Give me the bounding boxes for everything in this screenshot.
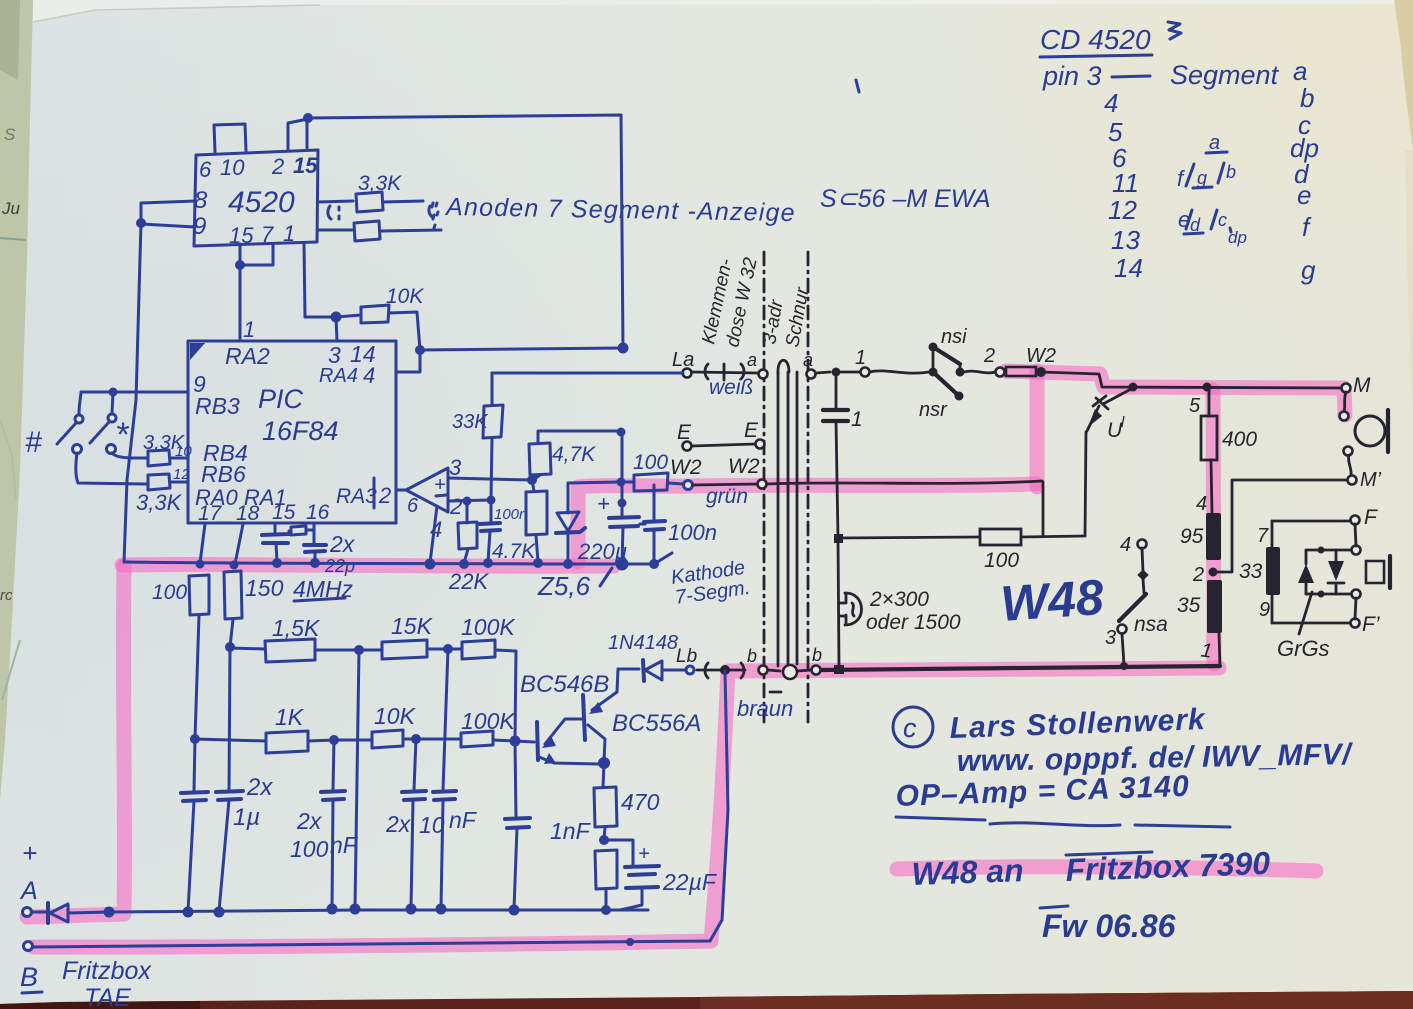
nsi nsr contact [932, 347, 935, 372]
svg-text:F’: F’ [1362, 613, 1380, 636]
svg-text:RA2: RA2 [225, 343, 270, 369]
rectifier bridge [1306, 549, 1336, 552]
svg-text:BC546B: BC546B [520, 671, 609, 698]
svg-text:6: 6 [199, 157, 212, 182]
svg-text:22p: 22p [324, 556, 355, 576]
svg-text:BC556A: BC556A [612, 710, 701, 737]
svg-text:1N4148: 1N4148 [608, 632, 678, 654]
Anoden annotation [429, 203, 438, 217]
electrolytic 220u [621, 432, 624, 516]
svg-text:W2: W2 [1026, 345, 1056, 367]
svg-text:e: e [1297, 180, 1311, 210]
svg-text:GrGs: GrGs [1277, 636, 1330, 661]
capacitor 1nF [515, 741, 516, 818]
svg-text:La: La [672, 349, 694, 371]
(already drawn to x=623; continue to La) [623, 372, 683, 375]
resistor lower anode feed [318, 229, 352, 232]
wire highlight: b row, down right side, B row [33, 668, 1219, 947]
svg-text:a: a [1293, 56, 1307, 86]
diode D1 1N4148 [618, 668, 639, 671]
caps 2x 10nF [414, 739, 416, 790]
resistor 100 (left column) [189, 575, 209, 615]
svg-text:100: 100 [633, 451, 668, 474]
svg-text:W2: W2 [670, 456, 702, 479]
vertical x446 down to cap [443, 649, 448, 790]
svg-text:c: c [903, 713, 917, 743]
wire to node 1 [841, 371, 860, 374]
svg-text:Ju: Ju [1, 199, 21, 218]
svg-text:100: 100 [152, 581, 187, 604]
GrGs rectifier box [1272, 520, 1350, 523]
svg-text:1: 1 [243, 317, 255, 342]
svg-text:3,3K: 3,3K [136, 490, 183, 515]
svg-text:d: d [1190, 215, 1201, 235]
svg-text:Fritzbox: Fritzbox [62, 957, 152, 985]
highlighter band: W48 an Fritzbox 7390 [897, 867, 1316, 871]
U' lead down and left to 100 row [1085, 432, 1086, 536]
svg-text:a: a [747, 350, 757, 370]
ground rail [124, 562, 654, 564]
svg-text:grün: grün [706, 485, 748, 508]
svg-text:6: 6 [407, 495, 419, 517]
pin 15 stub to top rail [306, 119, 309, 150]
svg-text:Fritzbox 7390: Fritzbox 7390 [1065, 845, 1271, 888]
svg-text:1,5K: 1,5K [272, 615, 321, 641]
horizontal 100 row [838, 537, 980, 538]
svg-text:100: 100 [984, 549, 1019, 572]
wire highlight: W2 vertical [1030, 371, 1045, 487]
svg-text:+: + [434, 474, 446, 496]
wire left bus down to pink corner [124, 223, 141, 562]
resistor below 470 [595, 850, 617, 889]
wire 33K top rail to bus [492, 372, 623, 375]
svg-text:pin 3: pin 3 [1042, 61, 1102, 91]
svg-text:+: + [597, 491, 610, 516]
svg-text:S: S [4, 125, 16, 144]
svg-text:CD 4520: CD 4520 [1040, 24, 1151, 55]
underlying green map paper, left edge [0, 0, 33, 800]
svg-text:1: 1 [283, 221, 295, 246]
svg-text:#: # [25, 426, 42, 459]
svg-text:4: 4 [1196, 493, 1207, 515]
thin wire node2 to M' [1218, 480, 1347, 572]
svg-text:150: 150 [245, 575, 284, 601]
IC U1 4520 box [194, 150, 318, 246]
jumper loop above pins 6-10 [214, 124, 246, 152]
svg-text:RA4: RA4 [319, 365, 358, 387]
vertical from row1 x360 to A row [355, 650, 359, 908]
svg-text:1: 1 [855, 347, 866, 369]
node La terminal circle [683, 369, 692, 378]
wire Lb down to B row [710, 671, 728, 941]
svg-text:nsa: nsa [1134, 613, 1168, 636]
svg-text:RA3: RA3 [336, 485, 377, 508]
capacitor 100n right [653, 485, 656, 520]
svg-text:B: B [20, 962, 38, 992]
svg-text:nsr: nsr [919, 399, 948, 421]
svg-text:3: 3 [1105, 627, 1116, 649]
svg-text:1µ: 1µ [233, 804, 260, 831]
svg-text:Fw 06.86: Fw 06.86 [1042, 908, 1176, 944]
svg-text:oder 1500: oder 1500 [866, 611, 961, 634]
jumper pins 15-7 below 4520 [240, 244, 273, 265]
svg-text:22µF: 22µF [662, 869, 718, 895]
svg-text:A: A [19, 877, 38, 905]
wire highlight: left vertical + A row [27, 566, 125, 917]
svg-text:15: 15 [272, 501, 296, 524]
wire 4520 pin1 down [304, 244, 333, 317]
copyright note [893, 707, 933, 747]
svg-text:2: 2 [378, 483, 391, 508]
wire highlight: right drop through coils [1213, 390, 1214, 664]
svg-text:100n: 100n [494, 506, 527, 523]
svg-text:M: M [1353, 374, 1371, 397]
svg-text:100n: 100n [668, 520, 717, 545]
crystal 4MHz with 2x22p [274, 524, 277, 533]
svg-text:4520: 4520 [228, 186, 295, 219]
svg-text:2x: 2x [329, 531, 356, 557]
svg-text:Z5,6: Z5,6 [537, 571, 591, 601]
svg-text:b: b [1300, 83, 1314, 113]
U' ringer branch [1103, 388, 1133, 404]
wire to PIC pin1/RA2 [239, 265, 242, 340]
svg-text:16F84: 16F84 [262, 416, 339, 446]
svg-text:weiß: weiß [709, 376, 753, 399]
svg-text:W2: W2 [728, 455, 760, 478]
caps 2x 1u [194, 739, 195, 791]
svg-text:100K: 100K [461, 708, 516, 734]
svg-text:+: + [638, 843, 650, 865]
wire highlight: zener branch up and gruen row [578, 484, 1036, 562]
svg-text:2x: 2x [246, 774, 273, 801]
wire op-amp pin4 down [430, 506, 437, 563]
svg-text:10K: 10K [374, 703, 417, 729]
svg-text:b: b [812, 645, 822, 665]
faint paper edge top-left [33, 0, 1413, 22]
svg-text:nF: nF [449, 807, 478, 833]
wire highlight: ground row [122, 564, 614, 566]
svg-text:2x: 2x [385, 811, 412, 837]
W2 connector bar [1006, 367, 1036, 376]
svg-text:33: 33 [1239, 560, 1263, 583]
row 1: 1,5K 15K 100K [230, 648, 265, 649]
wire op-amp pin2 row [448, 500, 491, 501]
resistor 150 [224, 571, 242, 619]
b-row printed marks [705, 663, 708, 678]
svg-text:33K: 33K [452, 411, 489, 433]
svg-text:E: E [744, 419, 759, 442]
resistor 10K [336, 315, 361, 317]
node W2 gruen terminal [684, 481, 693, 490]
svg-text:1nF: 1nF [550, 818, 592, 844]
wire op-amp pin3 [448, 478, 531, 480]
electrolytic 22uF [604, 840, 633, 864]
transistor Q1 BC546B [515, 741, 534, 742]
svg-text:12: 12 [173, 466, 190, 483]
svg-text:22K: 22K [448, 569, 489, 594]
svg-text:100: 100 [290, 836, 329, 862]
svg-text:10: 10 [419, 812, 445, 838]
svg-text:Lb: Lb [676, 646, 697, 667]
svg-text:2: 2 [449, 494, 462, 519]
svg-text:2×300: 2×300 [869, 588, 929, 611]
resistor 470 [603, 763, 604, 787]
wavy wire to node 2 [964, 371, 995, 373]
right tan paper edge [1394, 0, 1413, 150]
bell 2x300 oder 1500 [845, 593, 862, 625]
La row printed marks ( | ) [692, 372, 758, 373]
svg-text:2: 2 [1192, 564, 1204, 586]
svg-text:braun: braun [737, 696, 793, 721]
svg-text:35: 35 [1177, 594, 1201, 617]
svg-text:470: 470 [621, 789, 660, 815]
svg-text:a: a [1209, 132, 1220, 154]
row 2: 1K 10K 100K [195, 739, 266, 741]
svg-text:W48 an: W48 an [911, 852, 1024, 892]
svg-text:nF: nF [330, 832, 359, 858]
svg-text:16: 16 [306, 501, 330, 524]
B row [24, 942, 33, 951]
resistor 4,7K lower [532, 480, 534, 491]
svg-text:PIC: PIC [258, 384, 304, 414]
svg-text:400: 400 [1222, 428, 1257, 451]
resistor R 3,3K upper (anode feed) [318, 201, 353, 202]
svg-text:10: 10 [220, 155, 245, 180]
wire RB3 row to switches [81, 391, 188, 394]
gruen wire drop joins row [1042, 482, 1045, 536]
node a left [759, 370, 768, 379]
svg-text:3,3K: 3,3K [358, 172, 402, 195]
resistor 100 (W48) [980, 529, 1021, 545]
svg-text:1K: 1K [275, 704, 305, 730]
IC U2 PIC16F84 box [188, 341, 396, 523]
op-amp U3 CA3140 [396, 489, 406, 492]
svg-text:nsi: nsi [941, 326, 967, 348]
svg-text:W48: W48 [999, 569, 1106, 632]
svg-text:4: 4 [363, 363, 375, 388]
svg-text:4.7K: 4.7K [492, 540, 536, 563]
svg-text:rc: rc [0, 587, 13, 604]
svg-text:13: 13 [1111, 225, 1140, 255]
svg-text:14: 14 [1114, 253, 1143, 283]
wavy wire to nsi contact [870, 371, 929, 373]
svg-text:S⊂56 –M EWA: S⊂56 –M EWA [820, 185, 991, 213]
capacitor 1 plates [823, 408, 848, 412]
lower contacts [73, 445, 82, 454]
transistor Q2 BC556A [583, 695, 585, 740]
resistor 4,7K upper [538, 431, 621, 443]
svg-text:18: 18 [236, 502, 260, 525]
wire top rail to right and down (main vertical bus) [308, 115, 623, 348]
cord: three wires with top loop [778, 360, 789, 374]
svg-text:9: 9 [1259, 599, 1270, 621]
svg-text:RB3: RB3 [195, 393, 240, 419]
svg-text:10K: 10K [386, 285, 424, 308]
wire 4520 pin8 to left [141, 201, 196, 222]
svg-text:5: 5 [1189, 395, 1201, 417]
wire highlight: top black row to M [1006, 371, 1345, 415]
capacitor 100n [490, 500, 493, 522]
svg-text:RB6: RB6 [201, 461, 246, 487]
svg-text:Segment: Segment [1170, 60, 1280, 90]
svg-text:*: * [115, 416, 130, 454]
svg-text:4: 4 [1120, 534, 1131, 556]
Klemmendose dashed boundary lines [763, 252, 766, 722]
svg-text:2x: 2x [296, 808, 323, 834]
svg-text:2: 2 [271, 154, 284, 179]
junction cap node [832, 368, 841, 377]
top wire W2 to M [1041, 372, 1342, 388]
resistor 100 (gruen) [621, 481, 634, 484]
svg-text:17: 17 [198, 502, 223, 525]
kathode tick [654, 553, 672, 564]
svg-text:a: a [803, 350, 813, 370]
svg-text:2: 2 [983, 345, 995, 367]
b row bottom wire of W48 [820, 666, 1220, 670]
resistor 3,3K row12 [148, 474, 170, 490]
right column: coil 1/35/95, resistor 400 [1219, 634, 1220, 666]
svg-text:12: 12 [1108, 195, 1137, 225]
svg-text:1: 1 [851, 408, 863, 431]
svg-text:+: + [22, 838, 37, 868]
PIC pins 17,18 to ground rail [200, 524, 205, 563]
svg-text:E: E [677, 421, 692, 444]
resistor 22K [466, 501, 469, 523]
svg-text:10: 10 [175, 443, 192, 460]
svg-text:TAE: TAE [84, 984, 131, 1009]
svg-text:7: 7 [1257, 525, 1269, 547]
node a right [807, 370, 816, 379]
svg-text:3: 3 [449, 455, 462, 480]
node top rail junction [303, 113, 313, 123]
svg-text:b: b [747, 646, 757, 666]
caps 2x 100nF [333, 740, 334, 790]
svg-text:b: b [1226, 162, 1236, 182]
svg-text:15K: 15K [391, 613, 434, 639]
svg-text:15: 15 [293, 153, 318, 178]
earpiece capsule between M and M' [1344, 392, 1346, 411]
svg-text:M’: M’ [1360, 469, 1382, 491]
svg-text:4,7K: 4,7K [552, 443, 596, 466]
colon marks [432, 203, 435, 228]
capacitor 1 vertical lead [835, 376, 838, 409]
pin 2 stub [288, 120, 303, 150]
resistor 33K [491, 373, 494, 405]
wire node to PIC pin3 [336, 317, 337, 341]
wire node to main bus [420, 348, 623, 350]
svg-text:c: c [1218, 210, 1227, 230]
svg-text:g: g [1197, 168, 1207, 188]
pen mark [856, 80, 859, 92]
wire PIC pin4 jog up [397, 351, 420, 372]
wire 4520 pin9 to left [141, 224, 195, 227]
svg-text:4: 4 [1104, 88, 1118, 118]
svg-text:15: 15 [229, 223, 254, 248]
svg-text:F: F [1364, 506, 1378, 529]
dark table strip at bottom [0, 991, 1413, 1009]
svg-text:100K: 100K [461, 614, 516, 640]
resistor 3,3K row10 [148, 450, 170, 466]
zener diode Z5,6 [568, 482, 620, 513]
wire a to cap node [816, 372, 830, 373]
svg-text:11: 11 [1112, 168, 1139, 198]
svg-text:g: g [1301, 255, 1316, 285]
svg-text:95: 95 [1180, 525, 1204, 548]
